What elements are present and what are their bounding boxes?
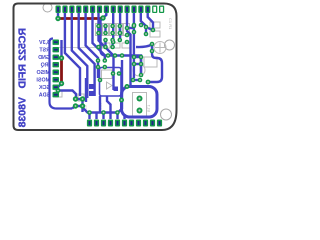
svg-text:GND: GND xyxy=(38,55,50,61)
svg-text:IRQ: IRQ xyxy=(41,63,50,69)
svg-text:RFID: RFID xyxy=(17,64,29,89)
svg-text:RST: RST xyxy=(39,48,50,54)
svg-text:SCK: SCK xyxy=(39,85,50,91)
svg-text:MISO: MISO xyxy=(36,70,50,76)
svg-text:3,3V: 3,3V xyxy=(39,40,50,46)
svg-text:SDA: SDA xyxy=(39,93,50,99)
svg-text:RC522: RC522 xyxy=(17,28,29,61)
svg-text:BT1: BT1 xyxy=(146,104,151,112)
svg-text:C1 R1: C1 R1 xyxy=(168,18,173,30)
svg-text:MOSI: MOSI xyxy=(36,78,50,84)
svg-text:V8038: V8038 xyxy=(17,97,29,128)
